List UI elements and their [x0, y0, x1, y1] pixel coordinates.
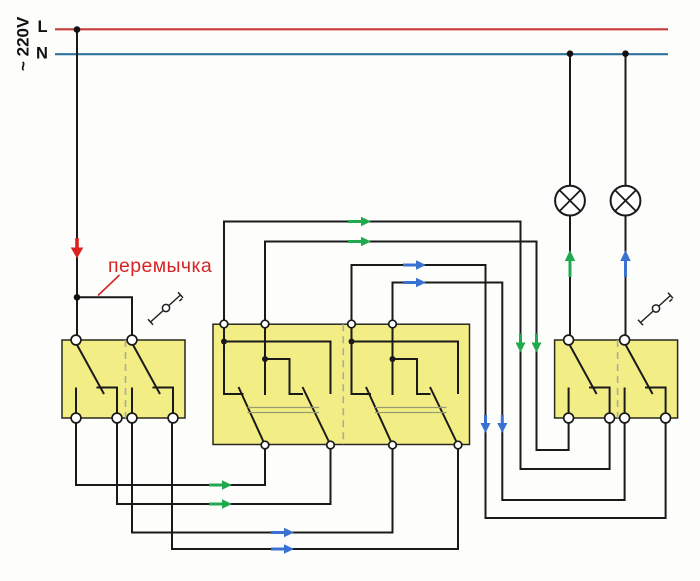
svg-text:L: L — [38, 18, 48, 36]
svg-text:N: N — [36, 45, 48, 63]
svg-text:~ 220V: ~ 220V — [14, 16, 33, 71]
svg-text:перемычка: перемычка — [108, 255, 212, 277]
